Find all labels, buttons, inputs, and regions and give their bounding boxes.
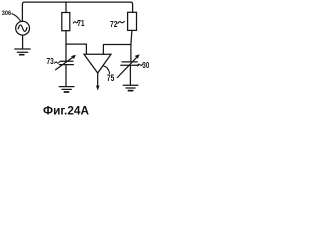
ground below C30 — [123, 84, 138, 86]
wire rail to R71 — [65, 2, 67, 12]
arrowhead op-amp output — [96, 86, 100, 91]
svg-text:73: 73 — [47, 56, 54, 66]
arrowhead C73 — [71, 55, 76, 59]
svg-text:71: 71 — [77, 18, 85, 28]
wire R71 to C73 — [65, 31, 67, 61]
label 306 leader — [12, 14, 20, 21]
ground below C73 — [59, 86, 74, 88]
label 75 curved leader — [103, 66, 109, 74]
arrowhead C30 — [135, 54, 140, 58]
resistor R72 — [128, 12, 137, 30]
wire source to ground — [22, 35, 24, 49]
ground below source — [15, 48, 30, 50]
label 71 tilde leader — [73, 22, 78, 24]
label 72 tilde leader — [118, 21, 125, 23]
op-amp U75 — [84, 54, 111, 73]
svg-text:Фиг.24А: Фиг.24А — [43, 103, 89, 117]
wire C30 to ground — [129, 65, 131, 85]
label 73 tilde leader — [55, 62, 60, 63]
svg-text:72: 72 — [110, 19, 117, 29]
variable capacitor C73 — [60, 60, 73, 62]
svg-text:75: 75 — [107, 73, 115, 83]
svg-text:30: 30 — [142, 62, 149, 70]
wire node to op-amp left input — [66, 44, 87, 54]
wire C73 to ground — [65, 65, 67, 87]
label 30 tilde leader — [137, 64, 143, 66]
resistor R71 — [62, 13, 70, 31]
wire R72 to C30 — [131, 30, 132, 61]
wire R72 node to op-amp right input — [103, 45, 130, 55]
wire top rail — [22, 2, 132, 21]
AC source V306 — [16, 21, 30, 35]
wire op-amp output — [97, 73, 99, 86]
variable capacitor C30 — [122, 61, 137, 63]
svg-text:306: 306 — [2, 9, 12, 17]
